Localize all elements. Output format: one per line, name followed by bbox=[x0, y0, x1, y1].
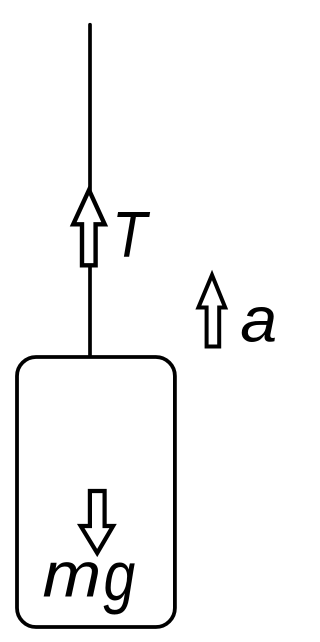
svg-text:T: T bbox=[112, 198, 150, 270]
svg-text:a: a bbox=[240, 284, 277, 356]
svg-text:g: g bbox=[104, 539, 136, 615]
svg-text:m: m bbox=[43, 539, 102, 610]
